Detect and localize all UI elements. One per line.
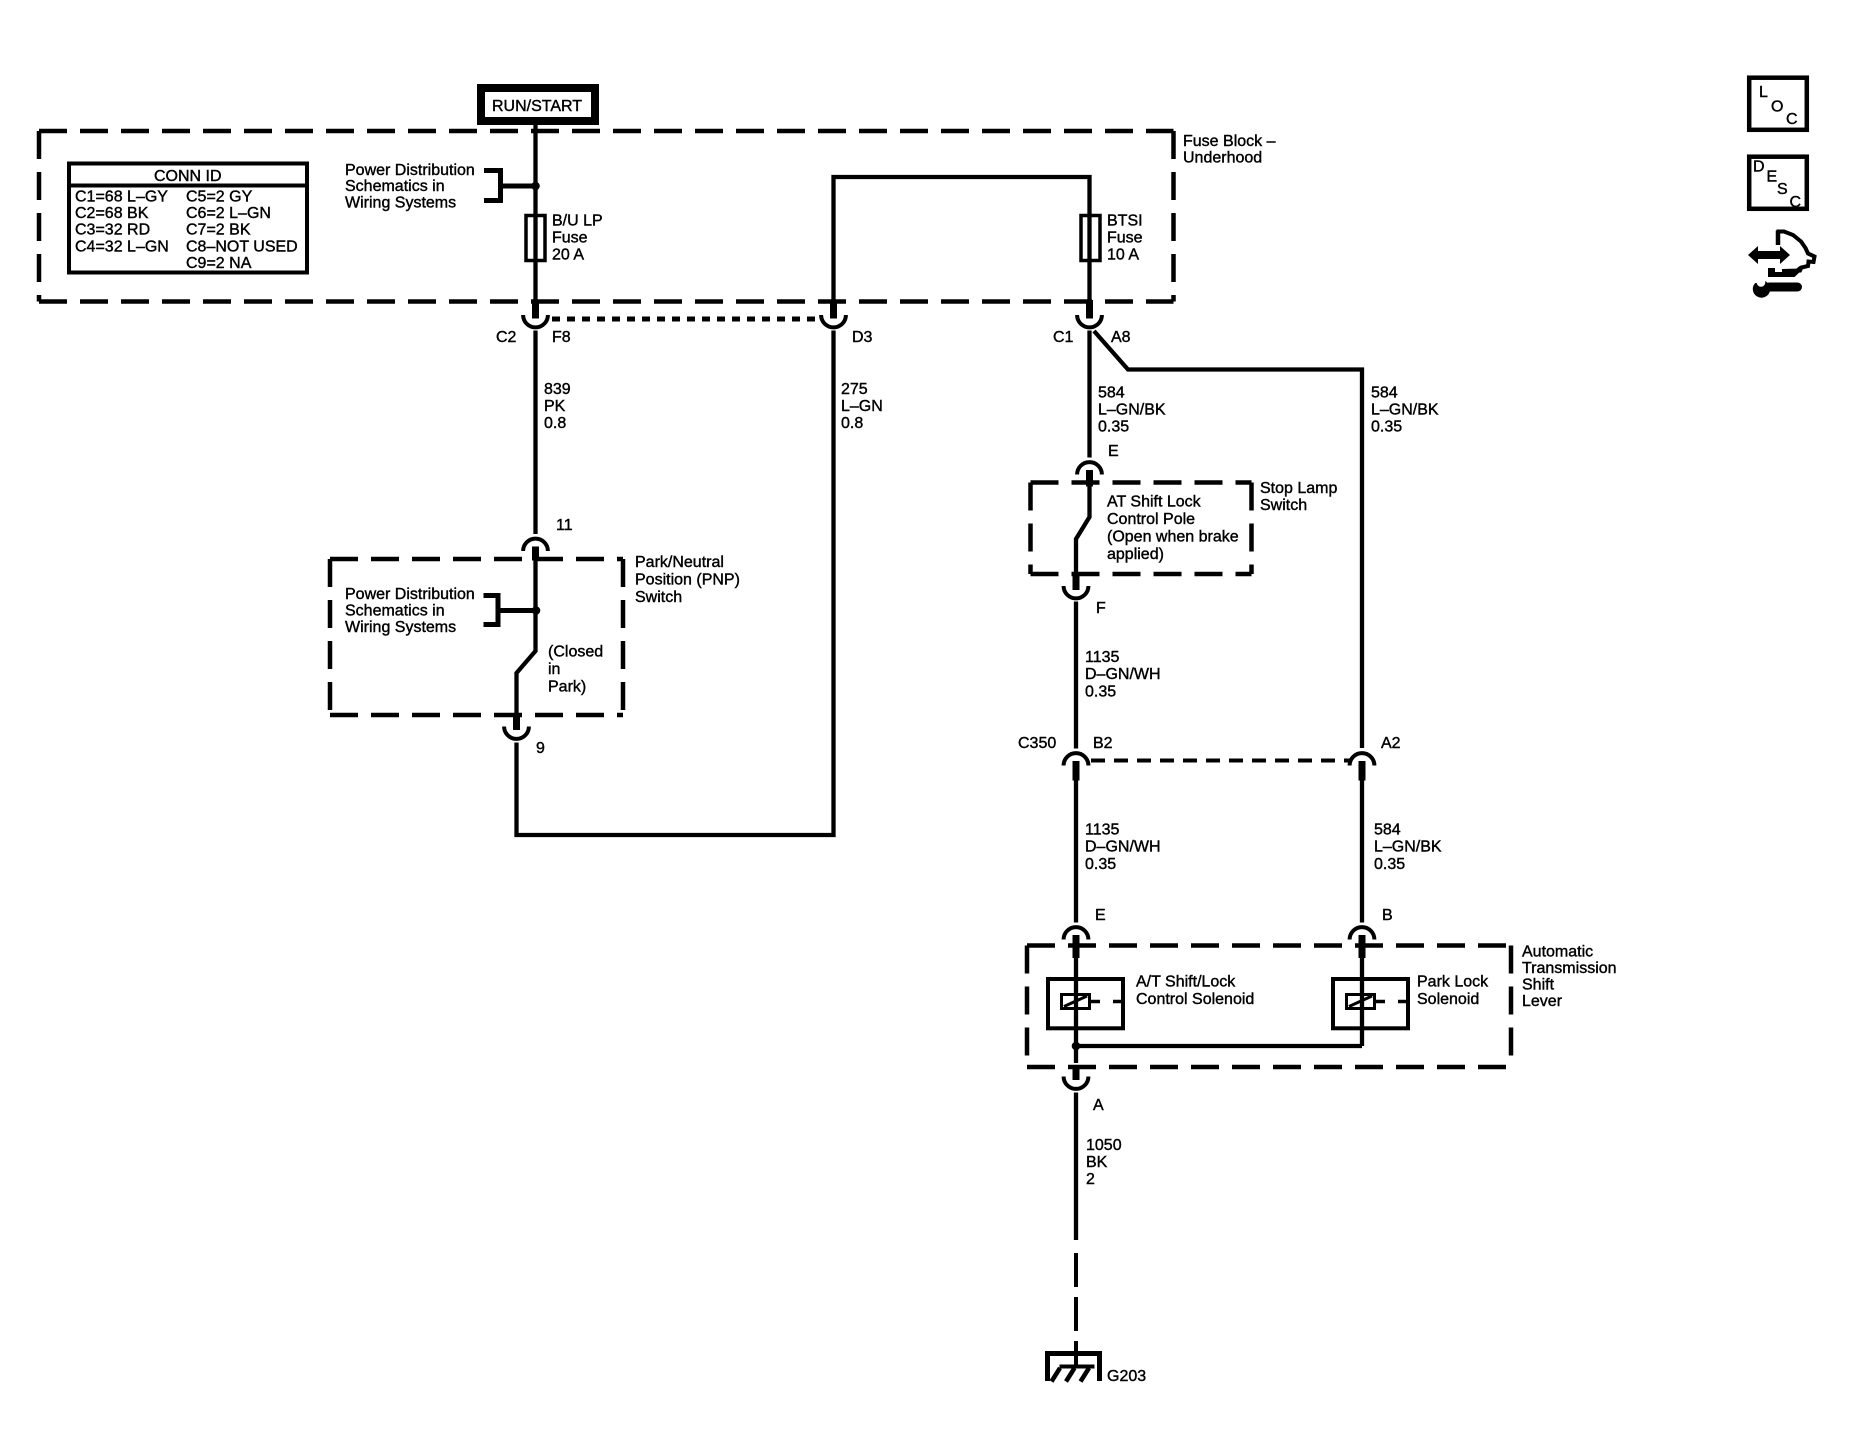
svg-text:L: L: [1759, 84, 1768, 101]
svg-text:(Closed: (Closed: [548, 644, 603, 661]
svg-text:Fuse: Fuse: [1107, 230, 1143, 247]
connector pin E solenoid: [1064, 927, 1089, 958]
svg-text:Fuse Block –: Fuse Block –: [1183, 133, 1276, 150]
connector pin B: [1350, 927, 1375, 958]
svg-text:Switch: Switch: [635, 589, 682, 606]
svg-text:Transmission: Transmission: [1522, 960, 1617, 977]
bracket power distribution (top): [484, 171, 536, 201]
node RUN/START: [481, 88, 595, 121]
svg-text:584: 584: [1098, 385, 1125, 402]
svg-text:Position (PNP): Position (PNP): [635, 572, 740, 589]
connector C350 pin B2: [1064, 753, 1089, 780]
svg-text:Park): Park): [548, 679, 586, 696]
connector C2 pin F8: [523, 300, 548, 327]
label park neutral position switch: [635, 554, 740, 606]
wire 275 L-GN loop: [517, 331, 834, 836]
svg-text:C9=2 NA: C9=2 NA: [186, 255, 252, 272]
svg-text:C5=2 GY: C5=2 GY: [186, 189, 253, 206]
wire 1135 lower: [1074, 780, 1078, 923]
svg-text:L–GN/BK: L–GN/BK: [1098, 402, 1166, 419]
automatic transmission shift lever dashed box: [1027, 946, 1511, 1068]
label Fuse Block Underhood: [1183, 133, 1276, 167]
bracket power distribution (PNP): [484, 596, 536, 625]
label AT shift lock control pole: [1107, 494, 1239, 564]
svg-text:Fuse: Fuse: [552, 230, 588, 247]
wire through park lock solenoid: [1360, 956, 1364, 1046]
svg-text:A8: A8: [1111, 329, 1131, 346]
svg-text:Control Solenoid: Control Solenoid: [1136, 991, 1254, 1008]
svg-text:L–GN: L–GN: [841, 398, 883, 415]
label wire 1135 D-GN/WH 0.35 (lower): [1085, 822, 1161, 874]
svg-text:CONN ID: CONN ID: [154, 168, 222, 185]
svg-text:F: F: [1096, 600, 1106, 617]
wire ignition feed B/U LP: [533, 125, 537, 301]
CONN ID table: [67, 164, 309, 273]
svg-text:PK: PK: [544, 398, 566, 415]
svg-text:C2: C2: [496, 329, 517, 346]
label automatic transmission shift lever: [1522, 944, 1617, 1011]
svg-text:C3=32 RD: C3=32 RD: [75, 222, 150, 239]
note power distribution schematics (top): [345, 162, 475, 211]
dotted interconnect fuse block row: [552, 317, 818, 322]
connector pin A: [1064, 1065, 1089, 1089]
park neutral position switch dashed box: [330, 559, 623, 715]
wire dashed ground lead: [1074, 1253, 1078, 1352]
svg-text:in: in: [548, 661, 560, 678]
svg-text:Solenoid: Solenoid: [1417, 991, 1479, 1008]
svg-text:Park Lock: Park Lock: [1417, 974, 1489, 991]
switch contact PNP closed in park: [517, 561, 536, 715]
svg-text:10 A: 10 A: [1107, 247, 1139, 264]
svg-text:Power Distribution: Power Distribution: [345, 162, 475, 179]
solenoid A/T shift lock control: [1048, 979, 1124, 1028]
svg-text:584: 584: [1374, 822, 1401, 839]
fuse F2 BTSI 10 A: [1081, 213, 1143, 264]
connector pin A2: [1350, 753, 1375, 780]
svg-text:Wiring Systems: Wiring Systems: [345, 619, 456, 636]
svg-text:B: B: [1382, 907, 1393, 924]
svg-text:O: O: [1771, 99, 1783, 116]
icon LOC: [1749, 78, 1807, 130]
svg-text:RUN/START: RUN/START: [492, 98, 582, 115]
connector pin 9: [504, 714, 529, 739]
svg-text:0.35: 0.35: [1085, 684, 1116, 701]
svg-text:Lever: Lever: [1522, 993, 1563, 1010]
label stop lamp switch: [1260, 480, 1337, 514]
icon DESC: [1749, 157, 1807, 211]
wire junction to pin A: [1074, 1046, 1078, 1063]
label wire 1050 BK 2: [1086, 1137, 1122, 1188]
label wire 584 L-GN/BK 0.35 (left): [1098, 385, 1166, 436]
svg-text:S: S: [1777, 181, 1788, 198]
wire 584 to stop lamp switch: [1087, 331, 1091, 458]
svg-text:BTSI: BTSI: [1107, 213, 1143, 230]
svg-text:L–GN/BK: L–GN/BK: [1374, 839, 1442, 856]
svg-text:Wiring Systems: Wiring Systems: [345, 194, 456, 211]
svg-text:L–GN/BK: L–GN/BK: [1371, 402, 1439, 419]
svg-text:B/U LP: B/U LP: [552, 213, 603, 230]
switch contact stop lamp: [1076, 486, 1090, 573]
svg-text:Control Pole: Control Pole: [1107, 511, 1195, 528]
svg-text:C7=2 BK: C7=2 BK: [186, 222, 251, 239]
svg-text:C350: C350: [1018, 735, 1056, 752]
junction PNP: [532, 606, 541, 615]
svg-text:275: 275: [841, 381, 868, 398]
svg-text:C2=68 BK: C2=68 BK: [75, 205, 149, 222]
label wire 275 L-GN 0.8: [841, 381, 883, 432]
svg-text:C: C: [1786, 111, 1798, 128]
label A/T shift lock control solenoid: [1136, 974, 1254, 1009]
wire solenoid common: [1076, 1044, 1362, 1048]
svg-text:Park/Neutral: Park/Neutral: [635, 554, 724, 571]
svg-text:1135: 1135: [1085, 822, 1120, 839]
connector pin D3: [821, 300, 846, 327]
wire BTSI feed inside fuse block: [834, 177, 1090, 301]
svg-text:E: E: [1767, 169, 1778, 186]
svg-text:0.8: 0.8: [841, 415, 863, 432]
solenoid park lock: [1333, 979, 1409, 1028]
svg-text:0.35: 0.35: [1374, 856, 1405, 873]
svg-text:E: E: [1108, 443, 1119, 460]
wire 1050 BK: [1074, 1093, 1078, 1241]
svg-text:0.35: 0.35: [1098, 419, 1129, 436]
label park lock solenoid: [1417, 974, 1489, 1009]
svg-text:20 A: 20 A: [552, 247, 584, 264]
svg-text:D–GN/WH: D–GN/WH: [1085, 839, 1161, 856]
svg-text:Schematics in: Schematics in: [345, 603, 445, 620]
wire through A/T shift lock solenoid: [1074, 956, 1078, 1046]
note power distribution schematics (PNP): [345, 586, 475, 636]
connector C1 pin A8: [1077, 300, 1102, 327]
svg-text:AT Shift Lock: AT Shift Lock: [1107, 494, 1202, 511]
svg-text:A2: A2: [1381, 735, 1401, 752]
svg-text:D: D: [1753, 159, 1765, 176]
stop lamp switch dashed box: [1031, 483, 1252, 575]
icon component locator tool: [1748, 231, 1815, 298]
svg-text:G203: G203: [1107, 1368, 1146, 1385]
connector pin 11: [523, 539, 548, 561]
dashed interconnect C350: [1091, 759, 1351, 763]
svg-text:584: 584: [1371, 385, 1398, 402]
svg-text:C1: C1: [1053, 329, 1074, 346]
svg-text:C6=2 L–GN: C6=2 L–GN: [186, 205, 271, 222]
svg-text:D3: D3: [852, 329, 873, 346]
svg-text:A/T Shift/Lock: A/T Shift/Lock: [1136, 974, 1236, 991]
svg-text:C4=32 L–GN: C4=32 L–GN: [75, 239, 169, 256]
svg-text:0.35: 0.35: [1085, 856, 1116, 873]
svg-text:Automatic: Automatic: [1522, 944, 1593, 961]
svg-text:A: A: [1093, 1097, 1104, 1114]
connector pin E stop lamp switch: [1077, 462, 1102, 486]
svg-text:Switch: Switch: [1260, 497, 1307, 514]
svg-text:Shift: Shift: [1522, 977, 1555, 994]
label wire 1135 D-GN/WH 0.35 (upper): [1085, 649, 1161, 701]
svg-text:839: 839: [544, 381, 571, 398]
svg-text:B2: B2: [1093, 735, 1113, 752]
ground G203: [1045, 1352, 1102, 1382]
svg-text:(Open when brake: (Open when brake: [1107, 529, 1239, 546]
svg-text:C1=68 L–GY: C1=68 L–GY: [75, 189, 168, 206]
svg-text:0.8: 0.8: [544, 415, 566, 432]
svg-text:Stop Lamp: Stop Lamp: [1260, 480, 1337, 497]
svg-text:C8–NOT USED: C8–NOT USED: [186, 239, 298, 256]
wire 839 PK: [533, 331, 537, 535]
svg-text:BK: BK: [1086, 1154, 1108, 1171]
junction solenoid common: [1072, 1042, 1081, 1051]
junction ignition feed: [531, 182, 540, 191]
svg-text:Underhood: Underhood: [1183, 150, 1262, 167]
svg-text:applied): applied): [1107, 546, 1164, 563]
fuse block underhood dashed box: [39, 131, 1174, 302]
svg-text:Schematics in: Schematics in: [345, 178, 445, 195]
svg-text:0.35: 0.35: [1371, 419, 1402, 436]
svg-text:C: C: [1790, 194, 1802, 211]
wire 1135 upper: [1074, 602, 1078, 749]
svg-text:9: 9: [536, 740, 545, 757]
svg-text:1135: 1135: [1085, 649, 1120, 666]
svg-text:11: 11: [556, 517, 573, 534]
svg-text:1050: 1050: [1086, 1137, 1122, 1154]
label wire 584 L-GN/BK 0.35 (right): [1371, 385, 1439, 436]
svg-text:E: E: [1095, 907, 1106, 924]
wire 584 branch A8 diagonal: [1094, 331, 1362, 748]
label closed in park: [548, 644, 603, 696]
svg-text:2: 2: [1086, 1171, 1095, 1188]
wire 584 lower: [1360, 780, 1364, 923]
label wire 584 L-GN/BK 0.35 (lower): [1374, 822, 1442, 874]
svg-text:F8: F8: [552, 329, 571, 346]
svg-text:Power Distribution: Power Distribution: [345, 586, 475, 603]
fuse F1 B/U LP 20 A: [526, 213, 603, 264]
connector pin F: [1064, 573, 1089, 598]
label wire 839 PK 0.8: [544, 381, 571, 432]
svg-text:D–GN/WH: D–GN/WH: [1085, 666, 1161, 683]
